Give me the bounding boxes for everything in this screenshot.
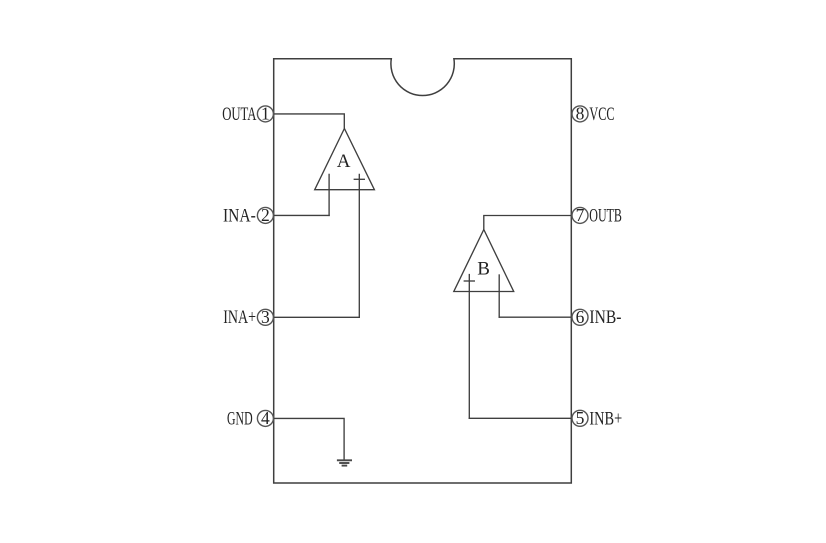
op-amp U1B triangle [454,230,514,292]
pin 6 circle [572,309,588,325]
wire pin5 INB+ to non-inverting input of B [469,417,571,419]
wire pin2 INA- to inverting input of A [274,214,330,216]
svg-text:3: 3 [261,307,270,327]
svg-text:VCC: VCC [589,104,614,125]
wire pin4 GND to ground [274,418,345,459]
plus marker crossbar A [354,178,364,180]
pin 2 circle [257,207,273,223]
svg-text:INA+: INA+ [223,307,256,328]
svg-text:GND: GND [227,408,253,429]
pin 8 circle [572,106,588,122]
svg-text:A: A [337,151,351,172]
svg-text:INA-: INA- [223,205,256,226]
pin 1 circle [257,106,273,122]
svg-text:OUTB: OUTB [589,205,622,226]
plus marker crossbar B [464,280,474,282]
svg-text:8: 8 [576,104,585,124]
pin 5 circle [572,410,588,426]
svg-text:2: 2 [261,205,270,225]
inverting input line of A (minus marker) [328,174,330,215]
non-inverting input line of B [468,275,470,419]
pin 3 circle [257,309,273,325]
svg-text:7: 7 [576,205,585,225]
svg-text:1: 1 [261,104,270,124]
wire pin6 INB- to inverting input of B [499,316,571,318]
op-amp U1A triangle [315,129,375,190]
pin 4 circle [257,410,273,426]
pin circles [257,106,588,427]
svg-text:OUTA: OUTA [222,104,256,125]
wire pin1 OUTA to op-amp A output (apex) [274,114,345,128]
svg-text:4: 4 [261,408,270,428]
ground symbol [337,460,352,465]
pin 7 circle [572,207,588,223]
wire op-amp B output (apex) to pin7 OUTB [484,216,572,230]
non-inverting input line of A [358,174,360,317]
svg-text:INB-: INB- [589,307,621,328]
wire pin3 INA+ to non-inverting input of A [274,316,360,318]
inverting input line of B (minus marker) [498,275,500,317]
IC body U1 outline with orientation notch [274,59,572,483]
svg-text:5: 5 [576,408,585,428]
svg-text:INB+: INB+ [589,408,622,429]
svg-text:B: B [477,259,490,280]
svg-text:6: 6 [576,307,585,327]
